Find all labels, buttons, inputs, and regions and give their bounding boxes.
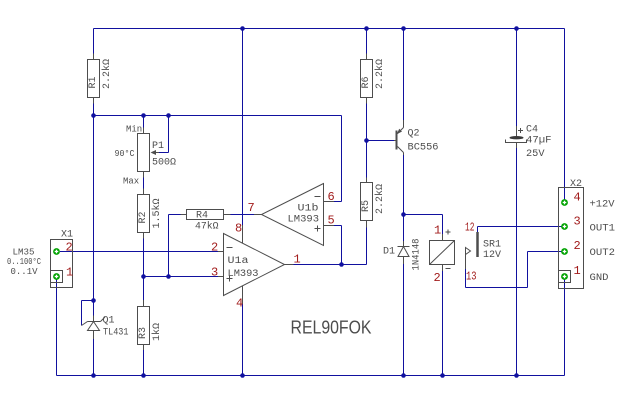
resistor R2 xyxy=(138,189,150,239)
wire U1a pin1 output horizontal xyxy=(294,264,367,266)
X1 pad pin1 xyxy=(53,273,60,280)
wire OUT2 horizontal run xyxy=(466,287,528,289)
svg-text:5: 5 xyxy=(328,214,335,228)
X2 pad pin3 xyxy=(561,223,568,230)
wire U1b pin7 to R4 right xyxy=(231,214,255,216)
svg-text:4: 4 xyxy=(236,297,243,311)
wire Q1 ref branch horizontal xyxy=(82,300,94,302)
svg-text:LM393: LM393 xyxy=(288,215,320,226)
svg-text:X1: X1 xyxy=(61,230,73,241)
connector X1 xyxy=(51,240,73,288)
svg-text:C4: C4 xyxy=(526,125,538,136)
svg-text:2: 2 xyxy=(574,239,581,253)
potentiometer P1 wiper arrow xyxy=(151,150,157,155)
junction VSET/R4 xyxy=(166,274,171,279)
op-amp U1b LM393 xyxy=(254,184,334,246)
svg-text:R6: R6 xyxy=(361,76,372,88)
svg-text:R3: R3 xyxy=(138,327,149,339)
wire +12V to R1 top xyxy=(93,29,95,54)
wire R2 bottom to R3 top xyxy=(143,239,145,301)
wire +12V to Q2 emitter xyxy=(403,29,405,121)
wire to U1b pin6 stub xyxy=(334,201,342,203)
wire GND to X2 pin1 xyxy=(564,277,566,376)
wire GND to D1 anode xyxy=(403,264,405,376)
svg-text:X2: X2 xyxy=(570,179,582,190)
svg-text:Q1: Q1 xyxy=(103,316,115,327)
svg-text:3: 3 xyxy=(574,215,581,229)
wire base node to Q2 xyxy=(367,140,395,142)
svg-text:R4: R4 xyxy=(196,211,208,222)
junction GND/SR1 xyxy=(440,373,445,378)
svg-text:6: 6 xyxy=(328,190,335,204)
wire GND to SR1 coil pin2 xyxy=(442,271,444,376)
wire OUT1 contact up xyxy=(477,227,479,233)
X2 pad pin2 xyxy=(561,248,568,255)
svg-text:LM35: LM35 xyxy=(13,248,35,258)
svg-text:LM393: LM393 xyxy=(228,269,259,280)
svg-text:GND: GND xyxy=(590,273,609,284)
wire output to R5 bottom xyxy=(366,228,368,265)
wire Q1 ref branch vertical xyxy=(81,301,83,326)
svg-text:0..1V: 0..1V xyxy=(11,267,39,277)
svg-text:47kΩ: 47kΩ xyxy=(195,221,219,233)
resistor R5 xyxy=(361,178,373,228)
transistor Q2 BC556 xyxy=(394,120,404,155)
wire OUT1 to X2 pin3 xyxy=(478,226,565,228)
resistor R3 xyxy=(138,300,150,350)
svg-text:1.5kΩ: 1.5kΩ xyxy=(151,198,163,228)
resistor R1 xyxy=(88,54,100,104)
wire OUT2 riser xyxy=(527,252,529,288)
svg-text:4: 4 xyxy=(574,191,581,205)
svg-text:1: 1 xyxy=(434,224,441,238)
wire P1 wiper riser xyxy=(168,116,170,153)
potentiometer P1 xyxy=(138,128,160,178)
svg-text:2: 2 xyxy=(211,241,218,255)
junction output/pin5 xyxy=(339,262,344,267)
svg-text:1kΩ: 1kΩ xyxy=(151,323,163,341)
X2 pad pin4 xyxy=(561,199,568,206)
wire GND to C4 bottom xyxy=(516,148,518,376)
junction REF/wiper xyxy=(166,113,171,118)
svg-text:BC556: BC556 xyxy=(408,143,439,154)
svg-text:12V: 12V xyxy=(483,250,501,261)
wire node REF to U1b pin6 vertical xyxy=(341,116,343,202)
wire LM35 signal X1 pin2 to U1a pin2 xyxy=(60,251,218,253)
wire node REF down to Q1 cathode xyxy=(93,116,95,316)
wire +12V top rail xyxy=(94,28,565,30)
junction REF/R1 xyxy=(91,113,96,118)
wire SR1 coil pin1 drop xyxy=(442,215,444,235)
resistor R4 xyxy=(181,210,231,220)
svg-text:TL431: TL431 xyxy=(103,328,129,339)
svg-text:REL90FOK: REL90FOK xyxy=(291,318,372,338)
svg-text:Max: Max xyxy=(123,177,139,187)
svg-text:R5: R5 xyxy=(361,200,372,212)
junction +12V/Q2 xyxy=(401,26,406,31)
svg-text:1: 1 xyxy=(574,264,581,278)
diode D1 1N4148 xyxy=(398,241,410,264)
wire node REF to P1 top xyxy=(143,116,145,128)
wire node REF: R1 bottom to horizontal xyxy=(93,104,95,116)
junction REF/P1 xyxy=(141,113,146,118)
relay SR1 coil xyxy=(430,230,455,272)
junction base/R6/R5 xyxy=(364,138,369,143)
wire GND to X1 pin1 xyxy=(56,277,58,376)
wire +12V to U1a pin8 xyxy=(242,29,244,226)
svg-text:2.2kΩ: 2.2kΩ xyxy=(101,59,113,89)
svg-text:0..100°C: 0..100°C xyxy=(7,257,41,267)
wire U1b pin5 drop xyxy=(341,226,343,265)
wire U1b pin5 stub run xyxy=(334,225,342,227)
svg-text:SR1: SR1 xyxy=(483,240,501,251)
wire R6 bottom to R5 top xyxy=(366,104,368,178)
svg-text:500Ω: 500Ω xyxy=(152,158,176,169)
wire GND to U1a pin4 xyxy=(242,304,244,376)
junction GND/D1 xyxy=(401,373,406,378)
wire R4 left riser xyxy=(168,215,170,277)
wire node VSET horizontal to U1a pin3 xyxy=(144,276,219,278)
svg-text:OUT2: OUT2 xyxy=(590,248,616,259)
svg-text:25V: 25V xyxy=(526,149,545,160)
svg-text:13: 13 xyxy=(466,270,477,284)
wire node REF horizontal run xyxy=(94,115,342,117)
svg-text:U1b: U1b xyxy=(298,203,319,215)
wire OUT2 pole drop xyxy=(465,269,467,288)
transistor Q1 TL431 xyxy=(82,316,106,340)
wire +12V to R6 top xyxy=(366,29,368,54)
svg-text:2.2kΩ: 2.2kΩ xyxy=(374,184,386,214)
svg-text:12: 12 xyxy=(465,221,475,235)
svg-text:P1: P1 xyxy=(152,141,164,152)
wire +12V to X2 pin4 xyxy=(564,29,566,203)
connector X2 xyxy=(559,188,584,289)
junction VSET/R2 xyxy=(141,274,146,279)
wire OUT2 to X2 pin2 xyxy=(528,251,565,253)
junction GND/R3 xyxy=(141,373,146,378)
junction +12V/C4 xyxy=(514,26,519,31)
junction +12V/pin8 xyxy=(240,26,245,31)
svg-text:2: 2 xyxy=(66,241,73,255)
svg-text:+12V: +12V xyxy=(590,200,615,211)
junction GND/pin4 xyxy=(240,373,245,378)
X1 pad pin2 xyxy=(53,248,60,255)
svg-text:1: 1 xyxy=(66,266,73,280)
svg-text:R2: R2 xyxy=(138,211,149,223)
wire Q2 collector down xyxy=(403,155,405,241)
wire GND to R3 bottom xyxy=(143,350,145,376)
svg-text:Q2: Q2 xyxy=(408,129,420,140)
svg-text:2.2kΩ: 2.2kΩ xyxy=(374,59,386,89)
svg-text:3: 3 xyxy=(211,266,218,280)
op-amp U1a LM393 xyxy=(218,225,294,304)
wire R4 left horizontal xyxy=(169,214,181,216)
relay SR1 contact xyxy=(466,232,478,269)
svg-text:90°C: 90°C xyxy=(115,149,136,159)
svg-text:U1a: U1a xyxy=(228,256,249,267)
wire GND to Q1 anode xyxy=(93,339,95,376)
X2 pad pin1 xyxy=(561,273,568,280)
svg-text:2: 2 xyxy=(434,271,441,285)
capacitor C4 top plate xyxy=(510,136,524,139)
svg-text:R1: R1 xyxy=(88,76,99,88)
svg-text:8: 8 xyxy=(235,222,242,236)
svg-text:7: 7 xyxy=(248,201,255,215)
capacitor C4 xyxy=(506,126,527,148)
junction +12V/R6 xyxy=(364,26,369,31)
resistor R6 xyxy=(361,54,373,104)
wire GND bottom rail xyxy=(57,375,565,377)
transistor Q2 emitter arrow xyxy=(397,129,402,134)
wire P1 bottom to R2 top xyxy=(143,178,145,189)
wire collector node to SR1 coil xyxy=(404,214,443,216)
svg-text:OUT1: OUT1 xyxy=(590,224,616,235)
wire +12V to C4 top xyxy=(516,29,518,127)
junction collector/D1 xyxy=(401,212,406,217)
junction REF/Q1 xyxy=(91,298,96,303)
junction GND/Q1 xyxy=(91,373,96,378)
svg-text:1N4148: 1N4148 xyxy=(412,239,423,271)
svg-text:1: 1 xyxy=(294,253,301,267)
svg-text:47µF: 47µF xyxy=(526,136,552,147)
svg-text:Min: Min xyxy=(126,125,142,135)
wire P1 wiper horizontal xyxy=(159,152,169,154)
junction GND/C4 xyxy=(514,373,519,378)
svg-text:D1: D1 xyxy=(383,247,395,258)
